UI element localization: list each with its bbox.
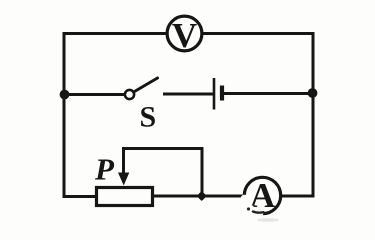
ammeter A circle <box>244 177 280 213</box>
svg-text:S: S <box>140 101 157 134</box>
wire: left rail <box>63 34 66 198</box>
switch S open circle <box>125 90 134 99</box>
battery long plate <box>213 78 216 110</box>
voltmeter V circle <box>167 16 202 51</box>
arc fragment dot <box>247 207 250 210</box>
node: right junction <box>308 88 318 98</box>
switch S blade <box>135 78 158 92</box>
node: left junction <box>60 90 70 100</box>
rheostat P body <box>97 188 153 206</box>
rheostat wiper arrowhead <box>118 173 129 186</box>
battery short plate <box>220 86 224 101</box>
wire: bottom right segment <box>153 195 315 198</box>
arc fragment dash <box>253 212 264 213</box>
rheostat wiper wire <box>124 149 203 197</box>
wire: middle segment battery to right rail <box>223 92 313 95</box>
wire: top rail <box>63 32 315 35</box>
wire: middle left segment to switch <box>64 93 126 96</box>
wire: bottom left segment <box>63 195 97 198</box>
svg-text:V: V <box>172 16 197 55</box>
wire: right rail <box>312 34 315 197</box>
svg-text:P: P <box>94 152 115 187</box>
faint scan smudge below ammeter <box>257 218 279 222</box>
node: bottom junction diamond <box>197 191 207 201</box>
wire: middle segment switch to battery <box>163 93 213 96</box>
smudge over ammeter lower-left arc <box>245 199 260 214</box>
